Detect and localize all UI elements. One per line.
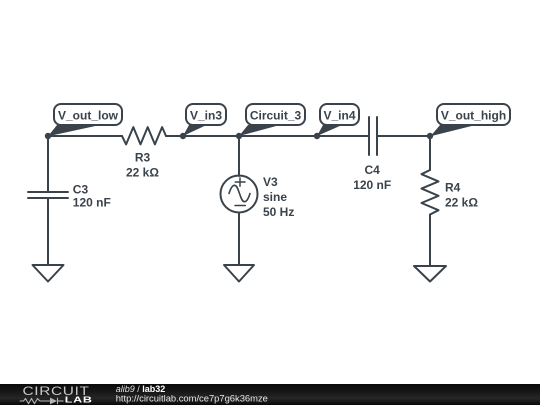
svg-text:50 Hz: 50 Hz	[263, 205, 294, 219]
svg-text:120 nF: 120 nF	[353, 178, 391, 192]
svg-text:22 kΩ: 22 kΩ	[126, 166, 159, 180]
svg-text:R4: R4	[445, 180, 461, 194]
svg-text:LAB: LAB	[65, 396, 93, 405]
svg-text:Circuit_3: Circuit_3	[250, 109, 302, 123]
svg-text:V_out_low: V_out_low	[58, 109, 119, 123]
svg-text:sine: sine	[263, 190, 287, 204]
svg-text:http://circuitlab.com/ce7p7g6k: http://circuitlab.com/ce7p7g6k36mze	[116, 393, 268, 404]
svg-text:22 kΩ: 22 kΩ	[445, 196, 478, 210]
svg-text:C3: C3	[73, 182, 89, 196]
svg-text:C4: C4	[365, 163, 381, 177]
svg-text:120 nF: 120 nF	[73, 195, 111, 209]
svg-text:V_in3: V_in3	[190, 109, 222, 123]
svg-text:R3: R3	[135, 151, 151, 165]
svg-text:V_in4: V_in4	[323, 109, 355, 123]
svg-text:V3: V3	[263, 175, 278, 189]
svg-text:V_out_high: V_out_high	[441, 109, 506, 123]
